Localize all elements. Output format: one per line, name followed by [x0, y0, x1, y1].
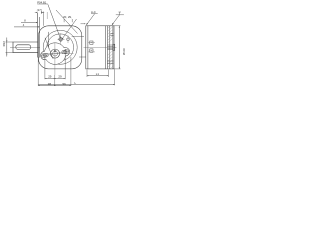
svg-text:Ø106: Ø106 — [122, 48, 126, 55]
svg-text:29: 29 — [48, 75, 52, 79]
svg-text:8: 8 — [24, 19, 26, 23]
svg-text:29: 29 — [58, 75, 62, 79]
svg-text:20, 29,: 20, 29, — [63, 15, 72, 19]
svg-text:Ø22: Ø22 — [2, 41, 6, 47]
svg-text:L1: L1 — [96, 72, 100, 76]
svg-text:56: 56 — [63, 82, 67, 86]
svg-text:4: 4 — [23, 23, 25, 27]
svg-text:P04,B1: P04,B1 — [37, 0, 47, 4]
svg-text:(17): (17) — [37, 8, 42, 12]
svg-text:L: L — [75, 81, 77, 85]
svg-text:A-C: A-C — [91, 10, 96, 14]
svg-text:38: 38 — [48, 82, 52, 86]
